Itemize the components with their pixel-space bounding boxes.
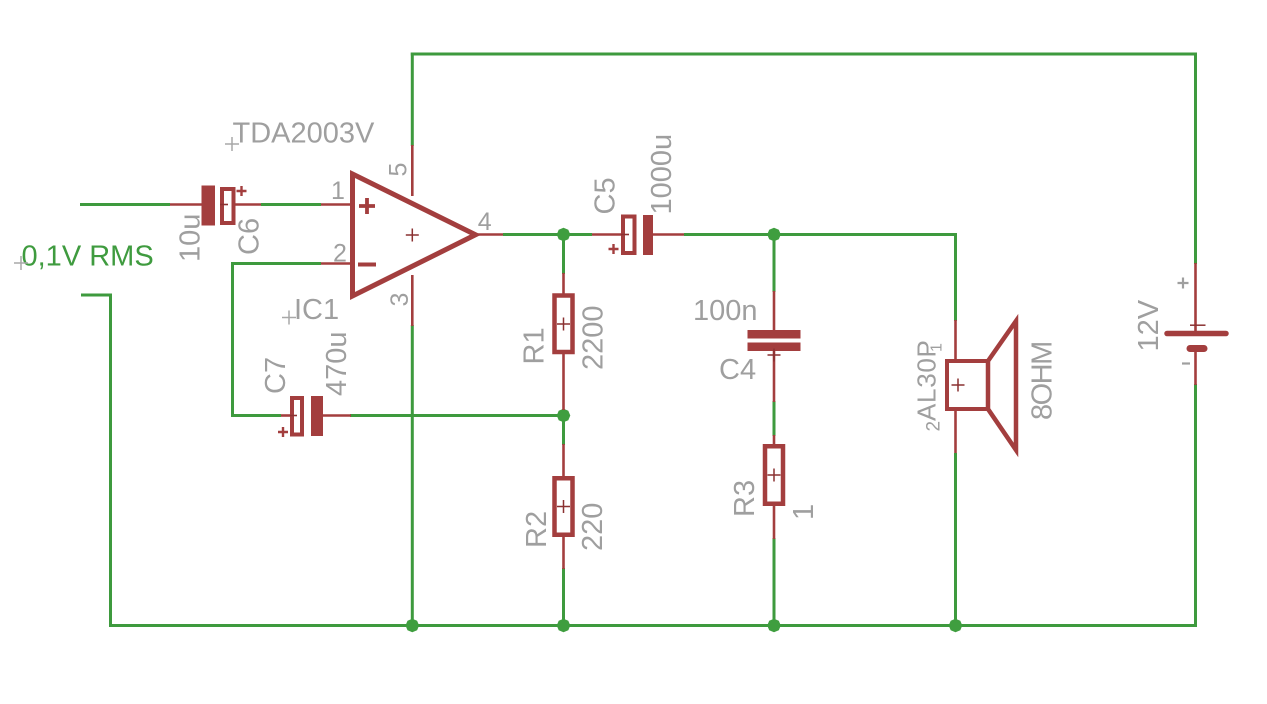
speaker LS1 origin cross [952,379,965,392]
wire input lower vertical [109,294,112,628]
capacitor C6 inner lead [220,204,228,206]
wire C5 to C4 node [684,233,957,236]
wire C7 to R1/R2 node [350,414,564,417]
op-amp minus input mark [358,263,376,267]
op-amp label origin cross [225,137,239,151]
capacitor C5 filled plate [643,215,653,255]
capacitor C7 outlined plate [292,398,302,435]
battery G1 lead top [1194,263,1197,331]
wire speaker branch down [954,233,957,321]
wire C6 to pin1 [261,203,321,206]
capacitor C5 lead left [592,233,621,236]
wire battery top [1194,53,1197,265]
svg-text:10u: 10u [175,214,207,262]
op-amp pin 1 stub [321,203,352,206]
svg-text:470u: 470u [321,331,353,396]
resistor R1 lead top [562,273,565,294]
capacitor C6 outlined plate [222,189,234,223]
resistor R3 body [765,446,783,504]
capacitor C6 lead left [170,203,202,206]
junction ground R2 [557,619,571,633]
wire R1 top stub [562,233,565,274]
capacitor C6 lead right [235,203,261,206]
capacitor C7 lead right [323,414,351,417]
svg-text:R2: R2 [521,511,553,548]
wire R2 bottom to rail [562,568,565,627]
wire C4 to R3 [773,401,776,436]
wire pin2 horizontal [231,262,321,265]
junction feedback node [557,409,571,423]
svg-text:0,1V RMS: 0,1V RMS [22,241,154,273]
svg-text:8OHM: 8OHM [1027,342,1059,420]
wire pin3 down [411,325,414,627]
wire bottom rail [109,624,1197,627]
battery G1 lead bottom [1194,351,1197,385]
op-amp pin 2 stub [321,262,352,265]
svg-text:C6: C6 [234,218,266,255]
svg-text:1000u: 1000u [646,134,678,215]
wire input lower horizontal [81,294,112,297]
speaker LS1 pin top stub [954,320,957,361]
svg-text:100n: 100n [693,295,758,327]
svg-text:R3: R3 [729,480,761,517]
junction ground R3 [767,619,781,633]
svg-text:TDA2003V: TDA2003V [233,118,376,150]
wire R3 to bottom rail [773,538,776,627]
svg-text:C7: C7 [260,357,292,394]
input label origin cross [14,256,28,270]
wire node to R2 [562,414,565,445]
capacitor C6 filled plate [202,186,216,226]
wire pin5 vertical [411,53,414,147]
capacitor C5 inner lead [621,234,629,236]
capacitor C4 plate top [748,330,801,339]
resistor R2 origin cross [557,500,570,513]
svg-text:220: 220 [577,503,609,551]
junction ground speaker [949,619,963,633]
op-amp pin 4 stub [475,233,503,236]
capacitor C4 origin cross [768,349,781,362]
capacitor C5 outlined plate [623,217,635,254]
svg-text:2: 2 [924,421,945,432]
svg-text:12V: 12V [1133,299,1165,351]
svg-text:C4: C4 [719,354,756,386]
capacitor C5 plus mark [609,244,619,254]
svg-text:R1: R1 [519,327,551,364]
capacitor C7 plus mark [278,427,288,437]
speaker LS1 box [947,361,988,409]
wire output pin4 [503,233,592,236]
svg-text:2200: 2200 [578,305,610,370]
junction ground pin3 [406,619,420,633]
battery G1 short plate [1190,345,1204,352]
junction C4 top node [767,228,781,242]
op-amp IC1 triangle [353,174,476,296]
svg-text:C5: C5 [590,177,622,214]
resistor R3 lead top [773,435,776,444]
wire feedback vertical [231,262,234,417]
resistor R2 lead top [562,444,565,476]
speaker LS1 horn [988,321,1016,450]
svg-text:4: 4 [478,208,492,236]
wire R1 bottom to node [562,409,565,417]
resistor R2 lead bottom [562,537,565,570]
battery G1 polarity cross [1190,324,1206,326]
resistor R3 origin cross [768,469,781,482]
junction output node [557,228,571,242]
svg-text:1: 1 [788,504,820,520]
speaker LS1 pin bottom stub [954,409,957,453]
resistor R2 body [555,478,573,535]
svg-text:1: 1 [331,177,345,205]
op-amp pin 5 stub [411,145,414,196]
capacitor C7 lead left [281,414,292,417]
capacitor C4 lead top [773,291,776,330]
svg-text:2: 2 [333,240,347,268]
capacitor C5 lead right [653,233,684,236]
svg-text:5: 5 [385,163,413,177]
capacitor C7 filled plate [311,396,323,436]
capacitor C6 plus mark [237,186,247,196]
capacitor C4 plate bottom [748,343,801,352]
battery G1 minus text [1182,362,1190,364]
wire top rail [411,53,1197,56]
battery G1 long plate [1167,331,1226,337]
wire speaker to bottom rail [954,453,957,627]
wire input top horizontal [80,203,170,206]
op-amp pin 3 stub [411,275,414,326]
resistor R1 body [555,296,573,353]
op-amp plus input mark [359,198,375,214]
svg-text:IC1: IC1 [294,294,339,326]
svg-text:3: 3 [386,293,414,307]
svg-text:AL30P: AL30P [912,339,942,421]
wire battery bottom [1194,384,1197,627]
wire C4 node down [773,233,776,292]
capacitor C4 lead bottom [773,351,776,402]
resistor R3 lead bottom [773,505,776,540]
op-amp origin cross [406,229,419,242]
resistor R1 lead bottom [562,354,565,410]
resistor R1 origin cross [557,318,570,331]
op-amp IC1 origin cross [282,311,296,325]
battery G1 plus text [1178,278,1189,289]
wire feedback to C7 [231,414,281,417]
capacitor C7 inner lead [290,415,297,417]
